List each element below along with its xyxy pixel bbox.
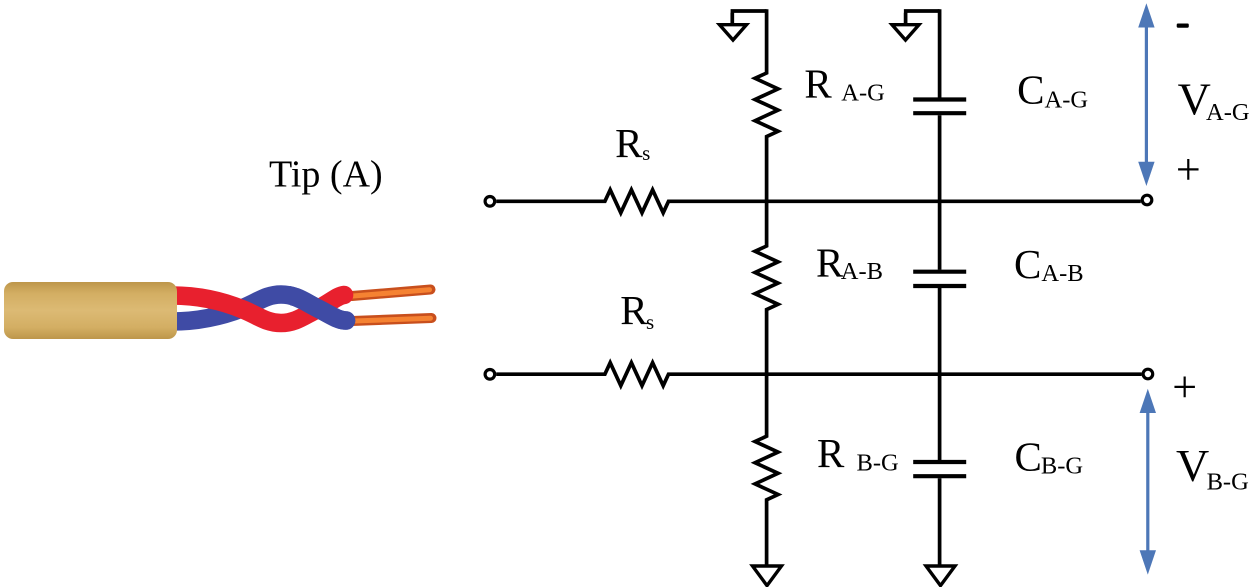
svg-text:B-G: B-G xyxy=(1207,468,1249,495)
svg-text:A-G: A-G xyxy=(1045,86,1089,113)
svg-text:A-B: A-B xyxy=(841,258,883,285)
svg-text:s: s xyxy=(646,310,654,334)
svg-text:R: R xyxy=(620,287,648,333)
svg-text:A-G: A-G xyxy=(1206,99,1250,126)
svg-text:s: s xyxy=(642,141,650,165)
svg-text:R: R xyxy=(804,60,832,106)
svg-text:C: C xyxy=(1014,241,1041,287)
svg-text:A-G: A-G xyxy=(841,80,885,107)
svg-text:C: C xyxy=(1015,434,1042,480)
svg-text:R: R xyxy=(817,430,845,476)
svg-text:V: V xyxy=(1176,440,1209,491)
svg-text:C: C xyxy=(1017,67,1044,113)
svg-text:A-B: A-B xyxy=(1041,260,1083,287)
svg-text:+: + xyxy=(1176,145,1201,194)
svg-text:R: R xyxy=(615,120,643,166)
svg-text:R: R xyxy=(816,239,844,285)
svg-text:Tip (A): Tip (A) xyxy=(269,154,383,196)
svg-text:B-G: B-G xyxy=(857,450,899,477)
svg-text:+: + xyxy=(1172,363,1197,412)
svg-text:B-G: B-G xyxy=(1041,453,1083,480)
